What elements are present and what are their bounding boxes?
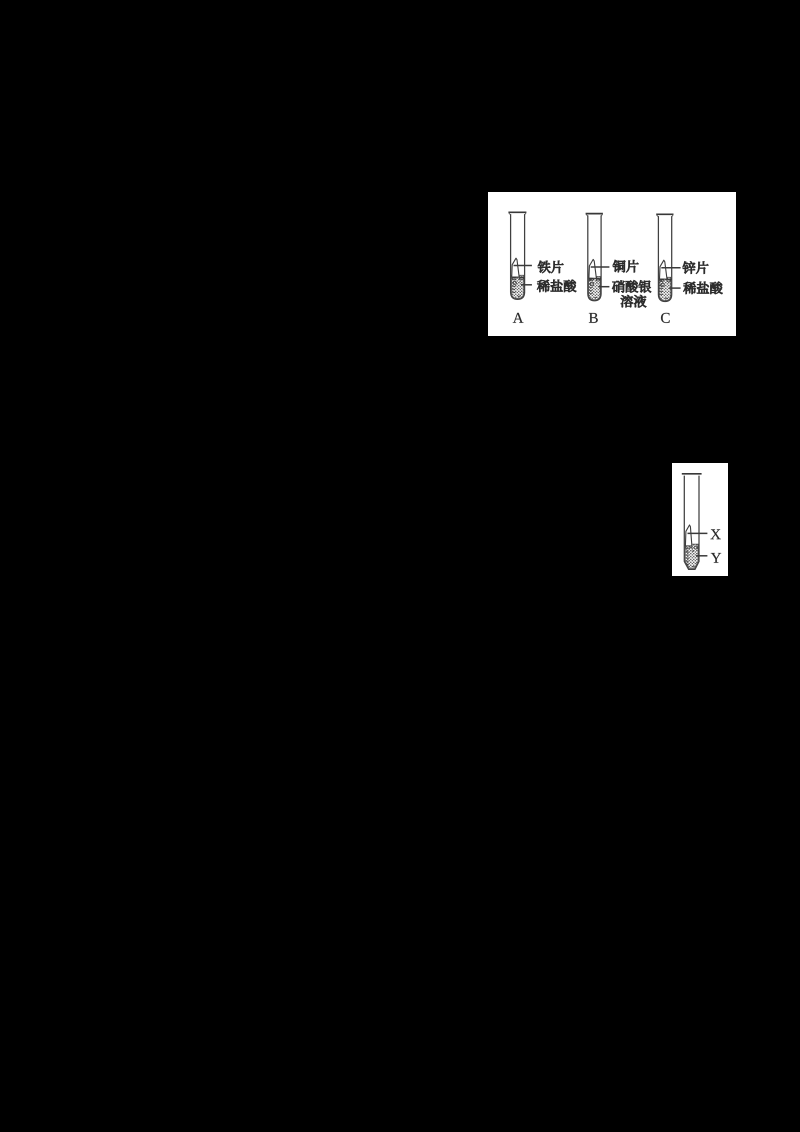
test tube B body [586, 213, 603, 215]
label X [711, 529, 721, 539]
test tube A body [508, 211, 526, 213]
leader line to label xi-yan-suan [521, 284, 532, 286]
test tube body (X/Y figure) [682, 473, 702, 475]
label 稀盐酸 C (dilute hydrochloric acid) [683, 282, 722, 294]
label 硝酸银 (silver nitrate) [612, 280, 651, 292]
test tube C body [656, 213, 673, 215]
liquid in tube B [589, 277, 601, 300]
metal strip in tube A [512, 258, 520, 277]
leader line to label tong-pian [591, 266, 610, 268]
leader line to Y [696, 555, 707, 557]
leader line to label xin-pian [661, 267, 680, 269]
label 铜片 (copper strip) [613, 260, 639, 272]
liquid in tube A [512, 275, 524, 298]
leader line to label xi-yan-suan C [669, 287, 681, 289]
figure panel: three test tubes A B C [488, 192, 736, 336]
label 铁片 (iron strip) [538, 261, 564, 273]
liquid in X/Y tube [685, 544, 698, 568]
label 稀盐酸 (dilute hydrochloric acid) [537, 280, 576, 292]
metal strip in tube B [589, 259, 597, 278]
leader line to X [688, 532, 708, 534]
letter B [589, 313, 598, 323]
liquid in tube C [659, 277, 671, 300]
label 锌片 (zinc strip) [683, 261, 709, 273]
label Y [711, 553, 721, 563]
metal strip X [685, 525, 692, 546]
label 溶液 (solution) [621, 295, 646, 307]
letter C [661, 313, 670, 323]
leader line to label tie-pian [514, 265, 532, 267]
letter A [513, 313, 524, 323]
figure panel: single test tube X/Y [672, 463, 728, 576]
metal strip in tube C [660, 260, 668, 279]
leader line to label xiao-suan-yin [598, 286, 609, 288]
